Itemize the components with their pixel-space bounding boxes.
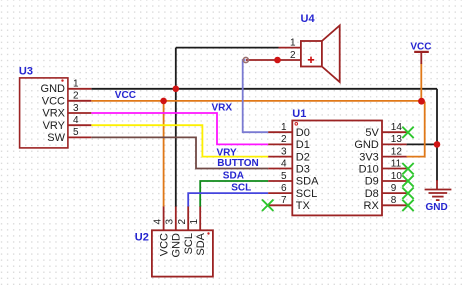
- no-connect X on U1 pin 7: [262, 200, 273, 211]
- open wire end marker at speaker pin2: [243, 57, 248, 62]
- U2 pin 4 VCC: [163, 207, 165, 231]
- svg-text:D0: D0: [296, 127, 310, 139]
- svg-text:U2: U2: [135, 231, 149, 243]
- wire VCC net: vertical to U2 pin4: [163, 101, 165, 207]
- wire BUTTON net: U3 pin5 (SW) to U1 pin4: [91, 137, 268, 168]
- svg-text:VRX: VRX: [212, 103, 233, 114]
- wire VCC net: vertical from power bar to U1 pin12 corner: [420, 64, 422, 101]
- svg-text:4: 4: [153, 219, 164, 225]
- svg-text:D8: D8: [365, 188, 379, 200]
- svg-text:5V: 5V: [365, 127, 379, 139]
- svg-text:BUTTON: BUTTON: [217, 158, 258, 169]
- svg-text:5: 5: [281, 171, 287, 182]
- component U3 (joystick header): [19, 66, 91, 148]
- junction GND bus / speaker-U2 vertical: [173, 86, 180, 93]
- svg-text:1: 1: [290, 37, 296, 48]
- svg-text:GND: GND: [426, 202, 448, 213]
- svg-text:VRY: VRY: [43, 120, 66, 132]
- U1 pin 8 RX: [382, 204, 407, 206]
- U1 pin 13 GND: [382, 143, 407, 145]
- svg-text:8: 8: [391, 195, 397, 206]
- svg-text:7: 7: [281, 195, 287, 206]
- svg-text:SDA: SDA: [296, 176, 319, 188]
- svg-text:3: 3: [73, 103, 79, 114]
- U1 pin 11 D10: [382, 168, 407, 170]
- svg-text:D1: D1: [296, 139, 310, 151]
- svg-text:9: 9: [391, 183, 397, 194]
- component U2 (I2C display header): [135, 207, 213, 277]
- svg-text:SDA: SDA: [195, 232, 207, 255]
- svg-text:SW: SW: [47, 132, 65, 144]
- U1 pin 6 SCL: [268, 192, 292, 194]
- svg-text:2: 2: [177, 219, 188, 225]
- U2 pin 3 GND: [175, 207, 177, 231]
- U4 pin 1: [279, 47, 301, 49]
- U1 pin 1 D0: [268, 131, 292, 133]
- svg-text:VCC: VCC: [42, 95, 65, 107]
- svg-text:VRX: VRX: [42, 108, 65, 120]
- no-connect X on U1 pin 8: [402, 200, 413, 211]
- svg-text:TX: TX: [296, 200, 311, 212]
- svg-text:D9: D9: [365, 176, 379, 188]
- junction on speaker pin2 wire: [274, 57, 281, 64]
- U1 pin 2 D1: [268, 143, 292, 145]
- junction VCC / U2 vertical: [160, 98, 167, 105]
- svg-text:SCL: SCL: [296, 188, 317, 200]
- U1 pin 4 D3: [268, 168, 292, 170]
- U1 pin 10 D9: [382, 180, 407, 182]
- U1 pin 9 D8: [382, 192, 407, 194]
- svg-text:3: 3: [165, 219, 176, 225]
- svg-text:4: 4: [281, 158, 287, 169]
- svg-text:D10: D10: [359, 163, 379, 175]
- U1 pin 7 TX: [268, 204, 292, 206]
- svg-text:2: 2: [281, 134, 287, 145]
- svg-text:SCL: SCL: [231, 183, 251, 194]
- svg-text:VRY: VRY: [217, 147, 238, 158]
- svg-text:SDA: SDA: [223, 170, 244, 181]
- power symbol VCC (top right): [410, 41, 431, 64]
- wire VRY net: U3 pin4 to U1 pin3: [91, 125, 268, 156]
- U1 pin 5 SDA: [268, 180, 292, 182]
- svg-text:GND: GND: [171, 233, 183, 258]
- U1 pin 3 D2: [268, 156, 292, 158]
- no-connect X on U1 pin 9: [402, 188, 413, 199]
- U3 pin 1: [68, 88, 91, 90]
- wire GND net: vertical down right side to earth: [436, 89, 438, 181]
- U2 pin 2 SCL: [187, 207, 189, 231]
- svg-text:1: 1: [73, 78, 79, 89]
- wire GND net: vertical through junction to U2 pin3: [175, 48, 177, 207]
- svg-text:5: 5: [73, 127, 79, 138]
- svg-text:1: 1: [281, 122, 287, 133]
- svg-text:6: 6: [281, 183, 287, 194]
- wire SDA net: U2 pin1 to U1 pin5: [200, 181, 268, 207]
- svg-text:2: 2: [290, 50, 296, 61]
- svg-text:VCC: VCC: [158, 233, 170, 256]
- svg-text:U4: U4: [301, 13, 316, 25]
- wire D0 net: speaker pin2 dark red segment: [246, 59, 301, 61]
- svg-text:2: 2: [73, 91, 79, 102]
- svg-text:RX: RX: [364, 200, 380, 212]
- svg-text:10: 10: [391, 171, 403, 182]
- no-connect X on U1 pin 10: [402, 175, 413, 186]
- no-connect X on U1 pin 11: [402, 163, 413, 174]
- wire VCC net: U3 pin2 horizontal: [91, 100, 421, 102]
- svg-text:U1: U1: [292, 108, 306, 120]
- junction GND vertical / U1 pin13: [434, 141, 441, 148]
- svg-text:D2: D2: [296, 151, 310, 163]
- svg-text:14: 14: [391, 122, 403, 133]
- U1 pin 14 5V: [382, 131, 407, 133]
- junction VCC horizontal / VCC power vertical: [418, 98, 425, 105]
- svg-text:3: 3: [281, 146, 287, 157]
- svg-text:U3: U3: [19, 66, 33, 78]
- wire VRX net: U3 pin3 to U1 pin2: [91, 113, 268, 144]
- svg-text:SCL: SCL: [183, 233, 195, 254]
- U1 pin 12 3V3: [382, 156, 407, 158]
- component U1 (MCU module): [268, 108, 406, 215]
- svg-text:GND: GND: [354, 139, 379, 151]
- svg-text:13: 13: [391, 134, 403, 145]
- svg-text:VCC: VCC: [115, 90, 136, 101]
- svg-text:1: 1: [189, 219, 200, 225]
- U3 pin 4: [68, 124, 91, 126]
- svg-text:4: 4: [73, 115, 79, 126]
- wire SCL net: U2 pin2 to U1 pin6: [188, 193, 268, 207]
- ground earth symbol: [425, 180, 452, 213]
- U3 pin 2: [68, 100, 91, 102]
- U3 pin 5: [68, 136, 91, 138]
- wire D0 net: blue-violet down to U1 pin1: [243, 60, 269, 132]
- wire GND net: U3 pin1 horizontal bus: [91, 88, 437, 90]
- U2 pin 1 SDA: [199, 207, 201, 231]
- svg-text:GND: GND: [41, 83, 66, 95]
- wire GND net: U1 pin13 to vertical: [407, 143, 437, 145]
- svg-text:11: 11: [391, 158, 402, 169]
- svg-text:3V3: 3V3: [359, 151, 379, 163]
- svg-text:D3: D3: [296, 163, 310, 175]
- wire GND net: horizontal to speaker pin1: [176, 47, 279, 49]
- svg-text:VCC: VCC: [410, 41, 431, 52]
- component U4 (speaker): [279, 13, 340, 82]
- U3 pin 3: [68, 112, 91, 114]
- svg-text:12: 12: [391, 146, 403, 157]
- no-connect X on U1 pin 14: [402, 127, 413, 138]
